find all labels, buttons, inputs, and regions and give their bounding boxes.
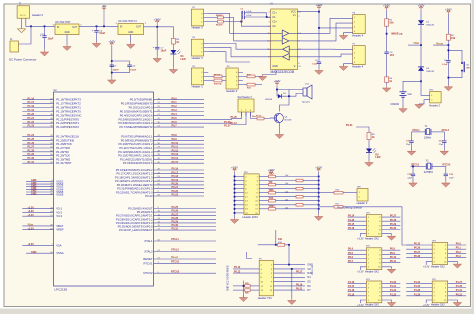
svg-text:V3A: V3A <box>56 243 61 247</box>
crystal Y1 12MHz <box>412 126 445 139</box>
capacitor C7 10uF <box>153 27 167 57</box>
svg-text:P1.24: P1.24 <box>414 281 421 284</box>
wire P3 pin2 <box>208 48 270 57</box>
svg-text:+3.3V: +3.3V <box>383 4 390 8</box>
ground under C12 <box>440 149 448 156</box>
svg-text:+3.3V: +3.3V <box>28 227 35 230</box>
wire P6 pin4 to ground <box>344 33 353 35</box>
svg-text:Header 4: Header 4 <box>352 33 364 37</box>
svg-text:P0.9: P0.9 <box>390 252 396 255</box>
svg-text:P1.31/TRST: P1.31/TRST <box>56 161 72 165</box>
wire P8 pin3 to buzzer <box>251 112 253 119</box>
capacitor C8 <box>442 45 451 85</box>
svg-text:P0.10: P0.10 <box>234 266 241 269</box>
svg-text:RTCX2: RTCX2 <box>171 270 180 273</box>
header P4 (ISP select) <box>191 66 208 89</box>
ground at BT1 <box>415 104 423 109</box>
wire buzzer top rail <box>277 86 303 90</box>
svg-text:P0.1: P0.1 <box>172 101 178 104</box>
svg-text:22pF: 22pF <box>406 144 411 146</box>
svg-text:VREF: VREF <box>56 228 64 232</box>
U2 VBAT pin <box>22 224 63 228</box>
svg-text:P1.20: P1.20 <box>28 113 35 116</box>
JTAG right rail <box>318 172 320 215</box>
resistor R6 <box>208 20 238 26</box>
svg-text:1: 1 <box>354 17 355 19</box>
svg-text:P1.29: P1.29 <box>28 153 35 156</box>
svg-text:RTCX1: RTCX1 <box>143 261 153 265</box>
svg-text:Header 3: Header 3 <box>192 56 204 60</box>
+3.3V to JP1 <box>357 234 366 241</box>
svg-text:P1.19: P1.19 <box>348 293 355 296</box>
U2 right pins P0.8-P0.15 <box>118 134 204 165</box>
svg-text:P0.6: P0.6 <box>172 121 178 124</box>
svg-text:Header 7X2: Header 7X2 <box>258 296 272 300</box>
wires JTAG rail to JP9 <box>234 176 244 214</box>
svg-text:P0.7/SSEL0/PWM2/EINT2: P0.7/SSEL0/PWM2/EINT2 <box>119 125 153 129</box>
junction <box>30 25 32 27</box>
svg-text:CR2032: CR2032 <box>391 104 400 106</box>
svg-text:P0.17: P0.17 <box>172 171 179 174</box>
svg-text:TDI: TDI <box>269 181 273 184</box>
svg-text:VBat: VBat <box>28 224 34 227</box>
LED D1 power indicator <box>170 47 185 68</box>
ground under LED D5 <box>365 160 373 167</box>
svg-text:P0.20: P0.20 <box>172 183 179 186</box>
junction <box>276 89 278 91</box>
svg-text:P0.30: P0.30 <box>390 227 397 230</box>
ground under C4 <box>315 68 323 75</box>
JTAG right resistors <box>259 173 319 210</box>
svg-text:Header 5X2: Header 5X2 <box>365 303 379 307</box>
svg-text:P0.12: P0.12 <box>172 149 179 152</box>
resistor R8 1k <box>367 132 375 142</box>
wire T1 pin1 to ground <box>21 18 23 28</box>
svg-text:P0.31: P0.31 <box>172 228 179 231</box>
+3.3V to JP2 <box>357 267 366 274</box>
push button S2 reset <box>448 49 470 78</box>
svg-text:1: 1 <box>354 48 355 50</box>
resistor RN5 jtag <box>259 200 268 202</box>
svg-text:WAKE.up: WAKE.up <box>391 33 403 36</box>
svg-text:+3.3V: +3.3V <box>315 166 322 170</box>
header JP2 5x2 <box>365 246 382 274</box>
svg-text:P1.27: P1.27 <box>456 281 463 284</box>
svg-text:R5 470: R5 470 <box>216 14 223 17</box>
svg-text:12MHz: 12MHz <box>424 137 432 139</box>
svg-text:RTCX2: RTCX2 <box>443 163 452 166</box>
resistor R5 <box>208 14 233 19</box>
wires LCD right with names <box>273 264 313 293</box>
DC power connector J1 <box>9 39 36 61</box>
svg-text:R9 10k: R9 10k <box>214 74 221 76</box>
svg-text:P0.0: P0.0 <box>172 97 178 100</box>
svg-text:P0.12: P0.12 <box>234 271 241 274</box>
header P5 <box>226 66 243 93</box>
svg-text:P0.23: P0.23 <box>145 194 153 198</box>
svg-text:P0.27: P0.27 <box>414 251 421 254</box>
svg-text:P0.14: P0.14 <box>172 157 179 160</box>
svg-text:16X2 LCD: 16X2 LCD <box>312 264 314 275</box>
regulator U3 LT1117CST <box>53 22 83 35</box>
wires JP5 right <box>448 281 467 296</box>
capacitor C9 100nF <box>110 60 130 72</box>
svg-text:P0.19: P0.19 <box>172 179 179 182</box>
ground under decoupling caps <box>108 78 116 85</box>
header T1 power input <box>17 4 43 19</box>
+3.3V power symbol <box>316 3 323 9</box>
diode D4 1N4148 flyback <box>265 90 289 101</box>
wire BT1 pin2 to ground <box>419 100 430 104</box>
capacitor C9 <box>384 52 394 76</box>
svg-text:LED: LED <box>375 156 380 159</box>
wire P3 pin3 <box>208 44 270 50</box>
svg-text:Header 5X2: Header 5X2 <box>365 236 379 240</box>
U2 RESET pin <box>143 256 216 261</box>
wires JP3 right <box>382 281 401 296</box>
svg-text:P0.10: P0.10 <box>172 142 179 145</box>
wire P0.31 to R8 <box>356 127 369 132</box>
svg-text:P0.3: P0.3 <box>456 255 462 258</box>
svg-text:P1.31: P1.31 <box>456 289 463 292</box>
+3.3V power symbol <box>445 8 452 14</box>
ground under C13 <box>409 181 417 188</box>
svg-text:+3.3V: +3.3V <box>154 17 161 21</box>
wire +5V rail U3 out to U4 in <box>79 25 118 27</box>
wire VCC rail down to C4 <box>318 12 320 62</box>
crystal Y2 32768Hz <box>411 161 446 174</box>
svg-text:P1.21: P1.21 <box>28 117 35 120</box>
svg-text:P0.11: P0.11 <box>390 260 397 263</box>
resistor RN6 jtag <box>259 208 268 210</box>
wire R16 node up <box>275 230 277 245</box>
U2 left pins P1.16-P1.23 <box>22 97 81 129</box>
svg-text:Header 2: Header 2 <box>357 201 368 205</box>
svg-text:10k: 10k <box>285 175 288 177</box>
diode D3 1N4148 <box>418 67 435 73</box>
svg-text:RTCX2: RTCX2 <box>143 271 153 275</box>
svg-text:Header 2: Header 2 <box>32 13 44 17</box>
U2 RTCX1 pin <box>143 261 216 266</box>
svg-text:IN: IN <box>120 26 123 28</box>
header JP8 debug jumper <box>357 187 368 205</box>
svg-text:P0.6: P0.6 <box>348 256 354 259</box>
wire decoupling rail <box>111 46 113 79</box>
svg-text:P0.5: P0.5 <box>172 117 178 120</box>
resistor RN2 jtag <box>259 176 268 178</box>
header JP5 5x2 <box>431 279 448 307</box>
svg-text:+3.3V: +3.3V <box>108 40 115 44</box>
svg-text:10k: 10k <box>389 22 394 25</box>
svg-text:Header 4: Header 4 <box>352 64 364 68</box>
svg-text:P0.7: P0.7 <box>348 260 354 263</box>
junction <box>103 25 105 27</box>
wire P8 pin1 <box>231 112 242 119</box>
svg-text:V-: V- <box>294 65 297 68</box>
svg-text:P0.8: P0.8 <box>172 134 178 137</box>
capacitor C14 12pF <box>444 166 455 181</box>
svg-text:P1.27: P1.27 <box>224 125 231 128</box>
svg-text:P0.31: P0.31 <box>346 124 353 127</box>
svg-text:P0.17: P0.17 <box>296 271 303 274</box>
chassis ground under T1 <box>18 29 26 33</box>
svg-text:P0.25: P0.25 <box>172 206 179 209</box>
svg-text:10k: 10k <box>285 207 288 209</box>
wire U1 T1OUT to P6 <box>297 18 352 33</box>
wire U1 R1IN to P6 <box>297 23 352 41</box>
svg-text:VSS6: VSS6 <box>56 193 64 197</box>
resistor R20 <box>233 289 259 295</box>
svg-text:10uF: 10uF <box>48 38 54 41</box>
capacitor C4 0.1uF <box>312 60 321 69</box>
wire R6 to cap rail <box>238 21 241 23</box>
wire LCD row2 to ground <box>291 269 293 299</box>
U2 V3 supply pins <box>22 206 62 218</box>
+3.3V power symbol <box>154 17 161 26</box>
svg-text:3: 3 <box>354 57 355 59</box>
svg-text:P1.20: P1.20 <box>390 281 397 284</box>
svg-text:P1.17: P1.17 <box>28 101 35 104</box>
wires JP4 right <box>448 243 467 258</box>
svg-text:P0.16: P0.16 <box>172 168 179 171</box>
svg-text:P1.25: P1.25 <box>231 116 238 119</box>
svg-text:0.1uF: 0.1uF <box>246 11 252 13</box>
wire LCD aux vertical <box>243 281 245 298</box>
svg-text:P0.2: P0.2 <box>456 251 462 254</box>
ground at JP4 <box>448 262 462 269</box>
svg-text:10k: 10k <box>451 37 456 40</box>
wire node left stub <box>408 44 421 46</box>
svg-text:Header 4: Header 4 <box>226 89 238 93</box>
svg-text:+3.3V: +3.3V <box>445 8 452 12</box>
svg-text:10k: 10k <box>278 238 283 241</box>
svg-text:U3 LT1117CST: U3 LT1117CST <box>55 22 71 24</box>
svg-text:P1.12: P1.12 <box>231 122 238 125</box>
+5V power symbol <box>102 4 107 26</box>
ground under Q1 <box>275 132 283 139</box>
wires JP5 left <box>406 281 432 296</box>
svg-text:OUT: OUT <box>72 27 77 29</box>
op-amp U1 MAX3232 body <box>267 4 301 75</box>
svg-text:P1.22: P1.22 <box>390 289 397 292</box>
svg-text:P0.29: P0.29 <box>172 221 179 224</box>
wire from R16 loop down <box>247 252 252 259</box>
svg-text:GND: GND <box>272 65 278 68</box>
svg-text:DC Power Connector: DC Power Connector <box>9 57 36 61</box>
svg-text:P0.25: P0.25 <box>414 243 421 246</box>
svg-text:MAX3232ECDB: MAX3232ECDB <box>271 70 295 74</box>
U2 right pins P0.0-P0.7 <box>118 97 232 129</box>
svg-text:C2-: C2- <box>272 25 276 28</box>
header JP4 5x2 <box>431 241 448 269</box>
wire speaker to Q1 collector <box>280 96 290 111</box>
resistor R13 <box>243 83 262 89</box>
+3.3V to JP4 <box>423 262 432 269</box>
junction <box>288 264 290 266</box>
svg-text:P1.16: P1.16 <box>348 281 355 284</box>
svg-text:P1.21: P1.21 <box>390 285 397 288</box>
capacitor C13 10uF <box>40 26 54 49</box>
capacitor C12 22pF <box>439 132 447 150</box>
svg-text:100nF: 100nF <box>113 70 120 72</box>
svg-text:LED: LED <box>181 58 186 61</box>
+3.3V power symbol (pullups) <box>268 168 275 174</box>
svg-text:C1-: C1- <box>272 16 276 19</box>
ground under R4 <box>382 86 390 93</box>
resistor R1 10k <box>385 10 394 28</box>
transistor Q1 BC548 <box>270 113 292 123</box>
svg-text:+3.3V: +3.3V <box>423 265 430 268</box>
svg-text:P1.24: P1.24 <box>28 134 35 137</box>
svg-text:XTAL1: XTAL1 <box>144 239 153 243</box>
wires JP2 right <box>382 248 401 264</box>
junction <box>44 25 46 27</box>
+3.3V to JP5 <box>423 300 432 307</box>
svg-text:P0.21: P0.21 <box>296 288 303 291</box>
wire U1 pin15 GND <box>263 70 277 75</box>
svg-text:P0.27: P0.27 <box>390 215 397 218</box>
capacitor C2 0.1uF <box>241 15 268 23</box>
svg-text:P1.26: P1.26 <box>348 219 355 222</box>
svg-text:2: 2 <box>354 53 355 55</box>
svg-text:V+: V+ <box>293 14 297 17</box>
diode D2 1N4148 <box>418 10 435 27</box>
svg-text:+3.3V: +3.3V <box>231 166 238 170</box>
U2 VSS pins <box>26 179 64 197</box>
svg-text:+3.3V: +3.3V <box>357 238 364 241</box>
resistor R3 1k <box>171 38 179 47</box>
svg-text:+3.3V: +3.3V <box>28 214 35 217</box>
wire to battery <box>403 81 421 91</box>
svg-text:P0.19: P0.19 <box>296 283 303 286</box>
svg-text:IN: IN <box>57 27 60 29</box>
resistor R7 1k <box>252 116 270 120</box>
svg-text:P1.26: P1.26 <box>28 142 35 145</box>
svg-text:P1.30: P1.30 <box>28 157 35 160</box>
wire U4 GND pin <box>130 35 132 43</box>
ground under U3 <box>63 44 71 51</box>
svg-text:Header 10X2: Header 10X2 <box>243 215 259 219</box>
svg-text:VCC: VCC <box>291 11 296 14</box>
svg-text:4: 4 <box>354 31 355 33</box>
svg-text:P0.28: P0.28 <box>390 219 397 222</box>
svg-text:P0.26: P0.26 <box>414 247 421 250</box>
svg-text:100nF: 100nF <box>130 70 137 72</box>
ground under C6 <box>92 41 100 48</box>
wire P7 pin4 to ground <box>344 64 353 66</box>
wire +3.3V rail from U4 out <box>144 27 174 38</box>
svg-text:P1.25: P1.25 <box>414 285 421 288</box>
junction <box>318 11 320 13</box>
svg-text:P0.11: P0.11 <box>172 146 179 149</box>
svg-text:12pF: 12pF <box>407 177 412 179</box>
U2 VREF pin <box>22 227 64 231</box>
svg-text:VSSA: VSSA <box>56 251 64 255</box>
svg-text:P0.28: P0.28 <box>172 217 179 220</box>
svg-text:Speaker: Speaker <box>302 101 310 104</box>
svg-text:P0.31/UP_LED/CONNECT: P0.31/UP_LED/CONNECT <box>119 228 153 232</box>
wire D3 to battery and jumper <box>420 70 422 81</box>
svg-text:P1.16: P1.16 <box>28 97 35 100</box>
svg-text:P0.29: P0.29 <box>390 223 397 226</box>
capacitor C1 0.1uF <box>241 8 271 26</box>
svg-text:Header 5X2: Header 5X2 <box>365 270 379 274</box>
svg-text:VBat: VBat <box>413 42 419 45</box>
svg-text:P1.29: P1.29 <box>414 293 421 296</box>
resistor R19 <box>233 283 259 287</box>
svg-text:GND: GND <box>64 32 69 34</box>
U2 XTAL1 pin <box>144 238 216 243</box>
wire U1 R2IN to P7 <box>297 54 352 57</box>
header P6 UART0 <box>352 13 365 38</box>
svg-text:Reset: Reset <box>171 256 178 259</box>
svg-text:Header 5X2: Header 5X2 <box>431 264 445 268</box>
svg-text:XTAL2: XTAL2 <box>442 129 450 132</box>
svg-text:P0.23: P0.23 <box>172 194 179 197</box>
svg-text:+3.3V: +3.3V <box>28 206 35 209</box>
wire to jumper BT1 <box>421 81 430 95</box>
svg-text:V3-3: V3-3 <box>56 214 62 218</box>
svg-text:Run Debug Switch: Run Debug Switch <box>337 205 362 209</box>
svg-text:P0.1: P0.1 <box>456 247 462 250</box>
ground under LCD <box>288 298 296 305</box>
svg-text:32768Hz: 32768Hz <box>424 172 434 174</box>
svg-text:0.1uF: 0.1uF <box>246 15 252 17</box>
svg-text:R7 1k: R7 1k <box>256 116 262 118</box>
svg-text:10k: 10k <box>285 183 288 185</box>
svg-text:P0.10: P0.10 <box>390 256 397 259</box>
svg-text:P1.18: P1.18 <box>28 105 35 108</box>
svg-text:P0.16: P0.16 <box>348 227 355 230</box>
svg-text:P1.18: P1.18 <box>348 289 355 292</box>
svg-text:VO: VO <box>307 268 311 271</box>
ground at JP2 <box>382 267 396 274</box>
svg-text:22pF: 22pF <box>439 144 444 146</box>
svg-text:R6 470: R6 470 <box>216 23 223 26</box>
JTAG left rail <box>234 172 236 218</box>
junction <box>412 166 414 168</box>
svg-text:LPC2138: LPC2138 <box>55 288 68 292</box>
battery G1 CR2032 <box>391 92 413 107</box>
header JP9 JTAG 10x2 <box>243 172 260 219</box>
junction <box>96 25 98 27</box>
wire U1 VCC to +3.3V <box>297 10 319 12</box>
ground under C7 <box>153 56 161 63</box>
svg-text:2: 2 <box>354 22 355 24</box>
resistor R9 <box>208 74 226 78</box>
wire P2 pin3 to U1 T1IN <box>208 13 270 33</box>
+3.3V power symbol <box>108 40 115 46</box>
svg-text:104: 104 <box>390 54 395 57</box>
svg-text:P0.5: P0.5 <box>348 252 354 255</box>
svg-text:P0.21: P0.21 <box>172 186 179 189</box>
wire Q1 emitter to ground <box>279 123 281 133</box>
ground at P6 <box>339 33 347 40</box>
+3.3V power symbol <box>383 4 390 10</box>
wire DBGSEL long run to JP4 <box>319 204 414 246</box>
wire R1 down <box>386 28 388 52</box>
svg-text:Header 3: Header 3 <box>192 26 204 30</box>
junction VBAT node <box>420 44 422 46</box>
header JP3 5x2 <box>365 279 382 307</box>
ground at P7 <box>339 64 347 71</box>
svg-text:P0.4: P0.4 <box>348 248 354 251</box>
ground under C14 <box>442 181 450 188</box>
wire J1 to rail <box>19 26 32 44</box>
capacitor C6 10uF <box>92 26 106 41</box>
ground under C11 <box>407 149 415 156</box>
svg-text:P1.23/PIPESTAT2: P1.23/PIPESTAT2 <box>56 125 79 129</box>
